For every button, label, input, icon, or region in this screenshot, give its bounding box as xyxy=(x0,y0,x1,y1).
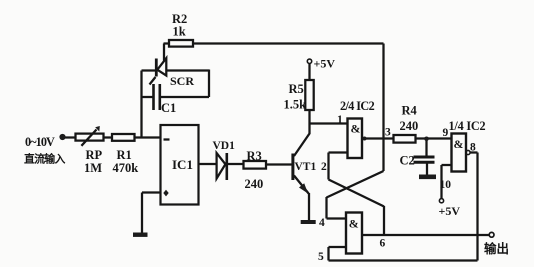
svg-text:1: 1 xyxy=(337,114,343,126)
svg-text:R1: R1 xyxy=(117,148,132,162)
svg-text:C2: C2 xyxy=(400,154,415,168)
svg-text:&: & xyxy=(351,122,361,136)
svg-text:RP: RP xyxy=(86,148,103,162)
svg-text:240: 240 xyxy=(245,177,264,191)
svg-text:C1: C1 xyxy=(161,101,176,115)
svg-text:240: 240 xyxy=(400,119,419,133)
svg-text:VT1: VT1 xyxy=(295,161,317,173)
svg-text:10: 10 xyxy=(440,179,452,191)
svg-text:4: 4 xyxy=(319,217,325,229)
svg-text:2/4 IC2: 2/4 IC2 xyxy=(340,99,375,113)
svg-text:0~10V: 0~10V xyxy=(25,135,55,149)
svg-text:1/4 IC2: 1/4 IC2 xyxy=(449,119,486,133)
svg-text:3: 3 xyxy=(385,127,391,139)
svg-text:输出: 输出 xyxy=(484,241,509,256)
svg-text:IC1: IC1 xyxy=(172,157,193,172)
svg-text:&: & xyxy=(349,217,359,231)
svg-text:1k: 1k xyxy=(173,25,186,39)
svg-text:直流输入: 直流输入 xyxy=(24,152,66,166)
svg-text:SCR: SCR xyxy=(170,74,194,88)
svg-text:6: 6 xyxy=(380,238,386,250)
svg-text:5: 5 xyxy=(318,251,324,263)
svg-text:VD1: VD1 xyxy=(213,140,236,152)
svg-text:R5: R5 xyxy=(289,82,304,96)
svg-text:470k: 470k xyxy=(113,161,139,175)
svg-text:&: & xyxy=(454,137,464,151)
svg-text:R3: R3 xyxy=(247,149,262,163)
svg-text:R4: R4 xyxy=(402,104,418,118)
svg-text:8: 8 xyxy=(470,142,476,154)
svg-text:1M: 1M xyxy=(84,161,102,175)
svg-text:+5V: +5V xyxy=(439,204,461,218)
svg-text:+5V: +5V xyxy=(314,57,336,71)
svg-text:2: 2 xyxy=(321,161,327,173)
svg-text:1.5k: 1.5k xyxy=(284,98,307,112)
